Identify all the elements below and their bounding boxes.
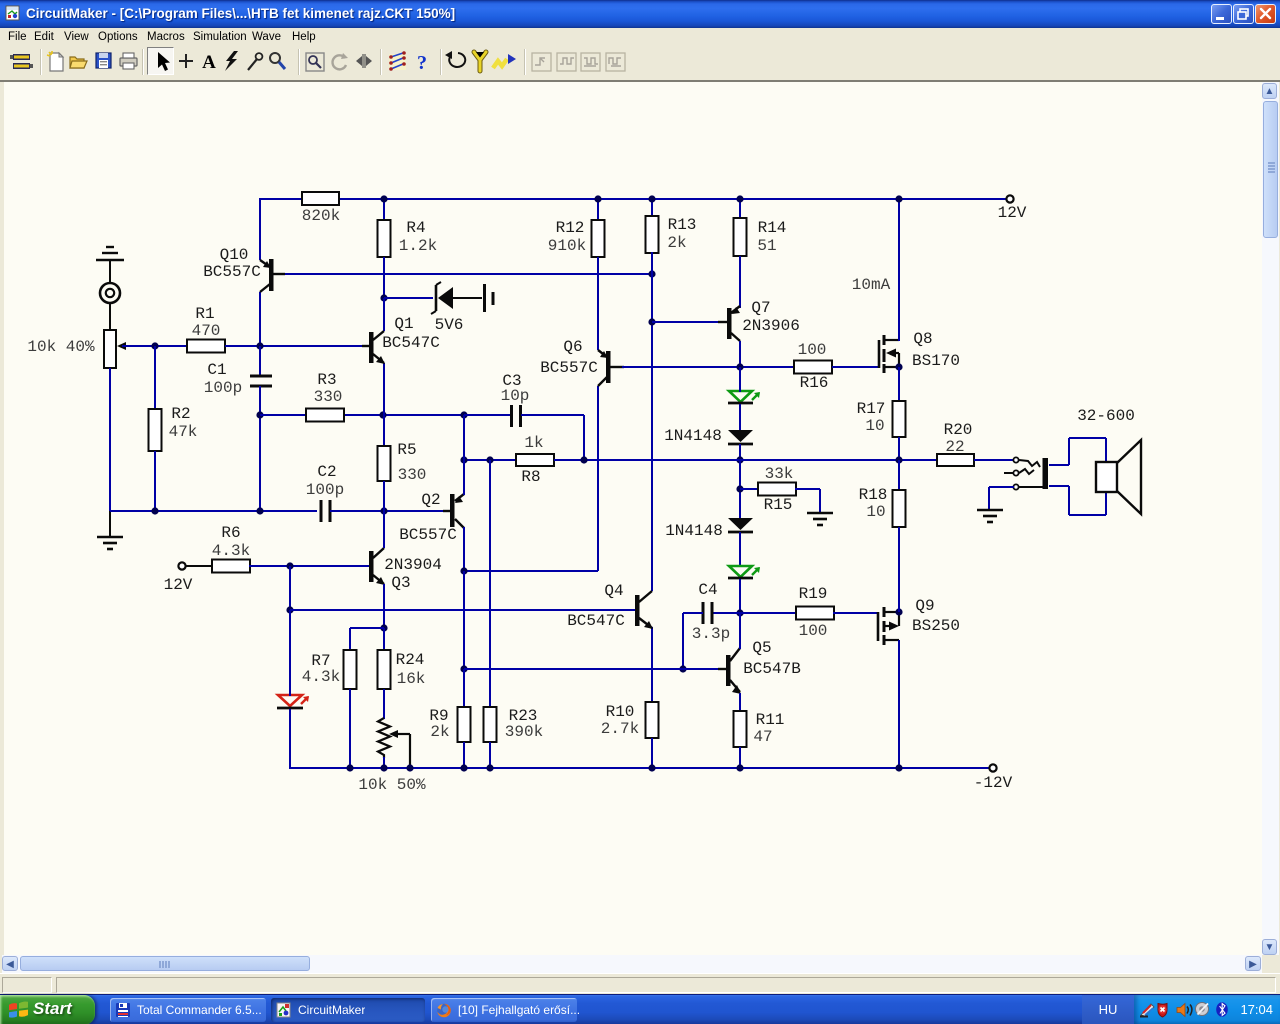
terminal -12V [989, 764, 996, 771]
wire Q9 source to bottom rail [898, 640, 900, 768]
resistor R1 [187, 340, 225, 353]
junction bottom rail / R9 [460, 764, 467, 771]
wire Q7 base [652, 321, 718, 323]
wire R7 top branch [350, 627, 384, 629]
wire R23 to bottom rail [489, 742, 491, 768]
svg-text:BC557C: BC557C [399, 526, 457, 544]
wire Q1 emitter to R3 row [383, 363, 385, 416]
svg-text:Q5: Q5 [752, 639, 771, 657]
resistor R6 [212, 560, 250, 573]
resistor R7 [344, 650, 357, 689]
svg-text:330: 330 [398, 466, 427, 484]
wire to LED D5 [739, 367, 741, 392]
LED D6 (green) [729, 566, 752, 577]
svg-text:Q7: Q7 [751, 299, 770, 317]
svg-text:R20: R20 [944, 421, 973, 439]
svg-text:100: 100 [799, 622, 828, 640]
wire C2 to Q2 base [330, 510, 450, 512]
resistor R23 [484, 707, 497, 742]
resistor R5 [378, 446, 391, 481]
junction bottom rail / R23 [486, 764, 493, 771]
wire LED D6 to C4/R19 node [739, 579, 741, 614]
LED D7 (red) [278, 695, 302, 706]
svg-text:C4: C4 [698, 581, 717, 599]
svg-text:2.7k: 2.7k [601, 720, 639, 738]
svg-text:BC547C: BC547C [382, 334, 440, 352]
svg-text:R13: R13 [668, 216, 697, 234]
terminal 12V (top rail) [1006, 195, 1013, 202]
svg-text:47: 47 [753, 728, 772, 746]
junction C1/R3 [256, 411, 263, 418]
junction C3 tap [460, 411, 467, 418]
junction C4/R19/Q5 collector [736, 609, 743, 616]
wire R9 to bottom rail [463, 742, 465, 768]
resistor R20 [937, 454, 974, 466]
svg-text:R18: R18 [859, 486, 888, 504]
junction R17/R18 output [895, 456, 902, 463]
svg-text:R11: R11 [756, 711, 785, 729]
svg-text:2k: 2k [667, 234, 686, 252]
wire C4 to node [713, 612, 740, 614]
wire down to C2 rail [259, 415, 261, 511]
junction base rail / R13 column [648, 270, 655, 277]
svg-text:A: A [202, 52, 216, 73]
wire Q10 collector drop [259, 292, 261, 347]
resistor R4 [378, 220, 391, 257]
wire Q8 source to R17 [898, 367, 900, 402]
wire Q3 emitter down [383, 584, 385, 611]
junction bottom rail / R10 [648, 764, 655, 771]
resistor R10 [646, 702, 659, 738]
svg-text:C1: C1 [207, 361, 226, 379]
input connector (phono) [100, 283, 120, 303]
wire output to D2 [739, 460, 741, 519]
wire output rail to R20 [554, 459, 938, 461]
wire to R5 [383, 415, 385, 447]
wire C4 branch down [682, 613, 684, 670]
svg-text:2N3906: 2N3906 [742, 317, 800, 335]
wire Q2 collector down [463, 527, 465, 572]
svg-text:Q6: Q6 [563, 338, 582, 356]
wire to R7 [349, 628, 351, 651]
svg-text:12V: 12V [164, 576, 193, 594]
wire R13 to Q4 collector [651, 252, 653, 591]
junction Q4 base rail [286, 606, 293, 613]
junction R15 tap [736, 485, 743, 492]
wire rail to R13 [651, 199, 653, 217]
junction C3 branch [580, 456, 587, 463]
junction Q8 source [895, 363, 902, 370]
svg-text:R2: R2 [171, 405, 190, 423]
resistor R13 [646, 216, 659, 253]
resistor R3 [306, 409, 344, 422]
wire to C1 [259, 346, 261, 376]
diode D2 1N4148 [728, 518, 753, 530]
svg-text:910k: 910k [548, 237, 586, 255]
wire to zener D3 [384, 297, 433, 299]
wire Q5 collector up [739, 613, 741, 649]
resistor R18 [893, 490, 906, 527]
svg-text:2k: 2k [430, 723, 449, 741]
svg-text:R24: R24 [396, 651, 425, 669]
wire R17 to output rail [898, 437, 900, 461]
wire Q3 collector up [383, 512, 385, 548]
wire Q6 collector to Q2 collector node [464, 570, 598, 572]
svg-text:3.3p: 3.3p [692, 625, 730, 643]
svg-text:390k: 390k [505, 723, 543, 741]
wire R11 to bottom rail [739, 747, 741, 768]
junction Q7 collector / LED chain [736, 363, 743, 370]
svg-text:1.2k: 1.2k [399, 237, 437, 255]
wire pot bottom to C2 rail [109, 368, 111, 511]
wire rail to R4 [383, 199, 385, 221]
wire to C3 [464, 414, 511, 416]
transistor Q5 BC547B (NPN) [726, 655, 731, 686]
transistor Q6 BC557C (PNP) [606, 351, 611, 383]
wire Q5 emitter to R11 [739, 693, 741, 712]
capacitor C1 [250, 375, 272, 378]
wire to speaker box bottom [1105, 492, 1107, 515]
transistor Q9 BS250 (P-MOSFET) [877, 612, 880, 641]
wire R5 to C2 rail [383, 481, 385, 512]
svg-text:100: 100 [798, 341, 827, 359]
potentiometer 10k 40% [104, 330, 116, 368]
wire speaker return drop [1068, 486, 1070, 515]
ground (input, inverted earth) [106, 246, 114, 248]
wire C3 node down [463, 415, 465, 461]
wire Q6 collector down [597, 386, 599, 571]
wire to Q1 collector [383, 298, 385, 331]
wire Q4 emitter to R10 [651, 627, 653, 703]
svg-text:R19: R19 [799, 585, 828, 603]
headphone jack J1 [1013, 457, 1018, 462]
resistor R16 [794, 361, 832, 374]
junction R5 bottom / Q3 collector [380, 507, 387, 514]
junction Q9 drain [895, 608, 902, 615]
junction R23 column [486, 456, 493, 463]
svg-text:100p: 100p [204, 379, 242, 397]
svg-text:1N4148: 1N4148 [665, 522, 723, 540]
wire R15 to ground [795, 488, 820, 490]
svg-text:1N4148: 1N4148 [664, 427, 722, 445]
wire R19 to Q9 gate [833, 612, 877, 614]
wire speaker riser [1068, 438, 1070, 465]
svg-text:R12: R12 [556, 219, 585, 237]
wire node to R19 [740, 612, 797, 614]
net: -12V bottom rail [290, 767, 990, 769]
junction bottom rail / trimmer [380, 764, 387, 771]
zener diode 5V6 [438, 287, 453, 309]
svg-text:R10: R10 [606, 703, 635, 721]
wire output rail to R18 [898, 460, 900, 491]
resistor R (820k) [302, 192, 339, 205]
resistor R9 [458, 707, 471, 742]
diode D1 1N4148 [728, 430, 753, 442]
wire R6 to Q3 base [249, 565, 369, 567]
svg-text:22: 22 [945, 438, 964, 456]
wire Q6 base / gate rail [622, 366, 795, 368]
svg-text:100p: 100p [306, 481, 344, 499]
svg-text:33k: 33k [765, 465, 794, 483]
resistor R11 [734, 711, 747, 747]
junction R2 bottom [151, 507, 158, 514]
wire zener to battery symbol [453, 297, 482, 299]
svg-text:R5: R5 [397, 441, 416, 459]
wire R12 to Q6 emitter [597, 257, 599, 350]
junction Q2 collector / Q6 collector [460, 567, 467, 574]
wire Q4 base rail [290, 609, 636, 611]
junction diode chain / output [736, 456, 743, 463]
wire to R24 [383, 628, 385, 651]
junction Q10 collector / C1 [256, 342, 263, 349]
wire Q5 base rail [464, 668, 718, 670]
terminal 12V (left) [178, 562, 185, 569]
resistor R19 [796, 607, 834, 620]
svg-text:820k: 820k [302, 207, 340, 225]
wire Q3 emitter down [383, 589, 385, 629]
junction Q7 base [648, 318, 655, 325]
ground (R15) [807, 512, 833, 515]
capacitor C3 [510, 405, 513, 427]
junction R2 top [151, 342, 158, 349]
wire speaker bottom [1069, 514, 1106, 516]
wire jack sleeve to ground [989, 486, 1014, 488]
resistor R15 [758, 483, 796, 496]
wire to Q3 collector [383, 511, 385, 542]
svg-text:4.3k: 4.3k [212, 542, 250, 560]
transistor Q1 BC547C (NPN) [369, 332, 374, 363]
wire down to Q4 base rail [289, 566, 291, 611]
wire rail to R12 [597, 199, 599, 221]
wire pot wiper to R1 [122, 345, 188, 347]
junction bottom rail / R7 [346, 764, 353, 771]
wire speaker top [1069, 437, 1106, 439]
wire R1 to Q1 base [225, 345, 370, 347]
wire to R9 [463, 669, 465, 708]
svg-text:16k: 16k [397, 670, 426, 688]
svg-text:10mA: 10mA [852, 276, 891, 294]
svg-text:10k 40%: 10k 40% [27, 338, 95, 356]
ground (below input pot) [97, 536, 123, 539]
junction R14 top [736, 195, 743, 202]
svg-text:470: 470 [192, 322, 221, 340]
svg-text:R14: R14 [758, 219, 787, 237]
wire LED to D1 [739, 404, 741, 431]
wire output rail (R8 left) [464, 459, 517, 461]
svg-text:47k: 47k [169, 423, 198, 441]
wire rail to R14 [739, 199, 741, 219]
junction R12 top [594, 195, 601, 202]
svg-text:10: 10 [866, 503, 885, 521]
junction R13 top [648, 195, 655, 202]
svg-text:10p: 10p [501, 387, 530, 405]
junction Q2 emitter / output rail [460, 456, 467, 463]
svg-text:Q2: Q2 [421, 491, 440, 509]
svg-text:R1: R1 [195, 305, 214, 323]
wire Q10 base rail [283, 273, 652, 275]
svg-text:10: 10 [865, 417, 884, 435]
transistor Q2 BC557C (PNP) [450, 494, 455, 527]
wire R2 to C2 rail [154, 451, 156, 511]
svg-text:10k 50%: 10k 50% [358, 776, 426, 794]
LED D5 (green) [729, 391, 752, 402]
svg-text:5V6: 5V6 [435, 316, 464, 334]
svg-text:Q8: Q8 [913, 330, 932, 348]
potentiometer 10k 50% (trimmer) [378, 718, 390, 758]
svg-text:R6: R6 [221, 524, 240, 542]
junction bottom rail / Q9 source [895, 764, 902, 771]
svg-text:BC557C: BC557C [540, 359, 598, 377]
junction C1 column [256, 507, 263, 514]
wire C1 to R3 row [259, 386, 261, 416]
svg-text:330: 330 [314, 388, 343, 406]
wire terminal to R6 [186, 565, 213, 567]
junction R5/Q1 emitter [379, 411, 386, 418]
svg-text:Q9: Q9 [915, 597, 934, 615]
wire jack tip to speaker [1049, 464, 1069, 466]
svg-text:12V: 12V [998, 204, 1027, 222]
svg-text:4.3k: 4.3k [302, 668, 340, 686]
wire jack to speaker return [1049, 485, 1069, 487]
junction bottom rail / wiper [406, 764, 413, 771]
capacitor C2 [320, 500, 323, 522]
transistor Q3 2N3904 (NPN) [369, 551, 374, 582]
wire output rail to R23 [489, 460, 491, 708]
svg-text:-12V: -12V [974, 774, 1013, 792]
capacitor C4 [702, 602, 705, 624]
wire to red LED [289, 610, 291, 696]
transistor Q10 BC557C (PNP) [269, 259, 274, 291]
transistor Q4 BC547C (NPN) [635, 595, 640, 626]
wire jack ground drop [988, 487, 990, 510]
net: +12V top rail [260, 198, 302, 200]
svg-text:51: 51 [757, 237, 776, 255]
wire output rail to Q2 emitter [463, 460, 465, 495]
wire to speaker box [1105, 438, 1107, 462]
wire rail to ground stem [109, 511, 111, 537]
wire Q10 emitter riser [259, 198, 261, 260]
svg-text:Q4: Q4 [604, 582, 623, 600]
wire to R15 [740, 488, 759, 490]
wire rail to Q8 drain [898, 199, 900, 341]
resistor R8 [516, 454, 554, 466]
resistor R24 [378, 650, 391, 689]
junction C4 / Q5 base rail [679, 665, 686, 672]
svg-text:BS250: BS250 [912, 617, 960, 635]
wire ground stem to input connector [109, 260, 111, 283]
svg-text:R3: R3 [317, 371, 336, 389]
wire R3 to C3 row [345, 414, 464, 416]
svg-text:2N3904: 2N3904 [384, 556, 442, 574]
svg-text:1k: 1k [524, 434, 543, 452]
wire to R3 [260, 414, 307, 416]
wire R7 to bottom rail [349, 689, 351, 768]
resistor R2 [149, 409, 162, 451]
junction bottom rail / R11 [736, 764, 743, 771]
svg-text:R15: R15 [764, 496, 793, 514]
junction R7/R24 [380, 624, 387, 631]
transistor Q7 2N3906 (PNP) [727, 308, 732, 339]
wire R18 to Q9 drain [898, 527, 900, 612]
svg-text:?: ? [417, 52, 427, 74]
wire red LED to bottom rail [289, 709, 291, 769]
wire connector to pot [109, 303, 111, 331]
svg-text:R8: R8 [521, 468, 540, 486]
svg-text:Q1: Q1 [394, 315, 413, 333]
svg-text:R16: R16 [800, 374, 829, 392]
resistor R17 [893, 401, 906, 437]
svg-text:Q10: Q10 [220, 246, 249, 264]
svg-text:R17: R17 [857, 400, 886, 418]
svg-text:R4: R4 [406, 219, 425, 237]
wire R15 ground drop [819, 489, 821, 512]
wire R10 to bottom rail [651, 738, 653, 768]
wire C4 left [683, 612, 703, 614]
battery/cell symbol (zener return) [483, 284, 486, 312]
svg-text:BC547B: BC547B [743, 660, 801, 678]
resistor R12 [592, 220, 605, 257]
svg-text:BC557C: BC557C [203, 263, 261, 281]
wire Q7 collector down [739, 341, 741, 368]
transistor Q8 BS170 (N-MOSFET) [878, 340, 881, 368]
junction zener/Q1 collector [380, 294, 387, 301]
wire down to Q5 base rail [463, 571, 465, 670]
resistor R14 [734, 218, 747, 256]
svg-text:32-600: 32-600 [1077, 407, 1135, 425]
wire C3 right [521, 414, 584, 416]
wire to R2 [154, 346, 156, 409]
junction Q8 drain top [895, 195, 902, 202]
svg-text:BS170: BS170 [912, 352, 960, 370]
wire R20 to jack [974, 459, 1013, 461]
junction Q5 base rail / R9 [460, 665, 467, 672]
svg-text:Q3: Q3 [391, 574, 410, 592]
svg-text:BC547C: BC547C [567, 612, 625, 630]
wire down to output row [583, 415, 585, 460]
wire R4 to zener node [383, 257, 385, 299]
wire trimmer to bottom rail [383, 757, 385, 768]
ground (jack) [977, 509, 1003, 512]
junction R4 top [380, 195, 387, 202]
wire R14 to Q7 emitter [739, 256, 741, 308]
wire D2 to LED D6 [739, 532, 741, 567]
wire R16 to Q8 gate [832, 366, 879, 368]
wire R24 to trimmer [383, 689, 385, 719]
wire D1 to output rail [739, 444, 741, 461]
junction R6 / Q4 base branch [286, 562, 293, 569]
wire C2 rail left [110, 510, 317, 512]
svg-text:C2: C2 [317, 463, 336, 481]
